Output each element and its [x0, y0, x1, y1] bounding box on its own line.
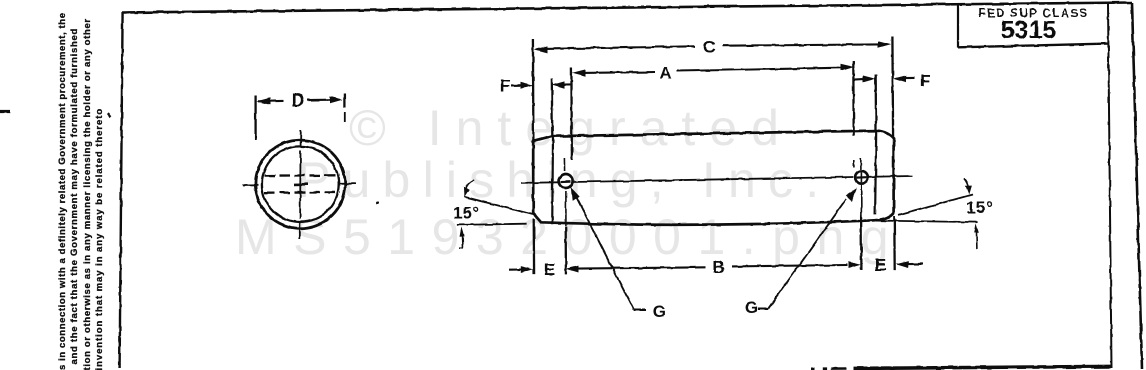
- svg-text:B: B: [712, 257, 724, 276]
- svg-text:G: G: [653, 302, 666, 321]
- svg-text:A: A: [660, 63, 672, 82]
- svg-text:D: D: [291, 90, 304, 110]
- svg-text:E: E: [544, 260, 555, 279]
- svg-text:F: F: [920, 71, 930, 90]
- svg-text:15°: 15°: [453, 204, 479, 222]
- svg-text:G: G: [745, 298, 758, 317]
- svg-text:F: F: [500, 76, 510, 95]
- svg-text:C: C: [703, 37, 715, 56]
- svg-text:E: E: [875, 255, 886, 274]
- svg-text:5315: 5315: [1001, 17, 1057, 45]
- svg-text:15°: 15°: [966, 199, 992, 217]
